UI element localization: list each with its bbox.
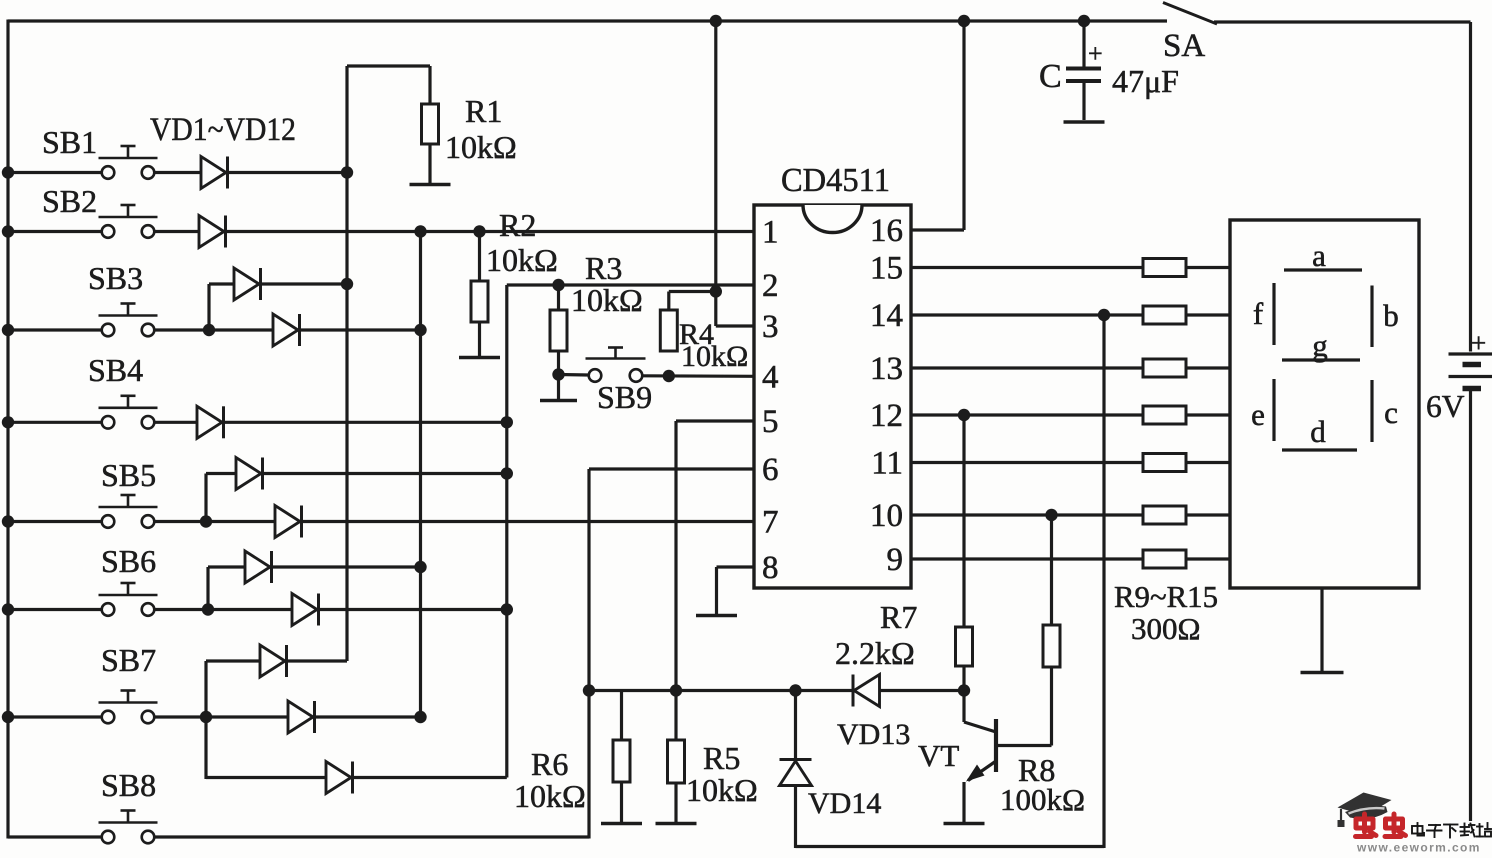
svg-text:+: + [1088, 39, 1103, 68]
svg-text:C: C [1039, 58, 1062, 95]
svg-text:VD14: VD14 [808, 787, 881, 820]
svg-text:13: 13 [870, 351, 903, 387]
svg-text:47μF: 47μF [1112, 63, 1179, 99]
svg-text:10kΩ: 10kΩ [681, 340, 748, 373]
svg-text:7: 7 [762, 505, 779, 541]
svg-text:SB3: SB3 [88, 260, 143, 296]
svg-text:12: 12 [870, 398, 903, 434]
svg-text:3: 3 [762, 309, 779, 345]
svg-text:10: 10 [870, 498, 903, 534]
svg-text:www.eeworm.com: www.eeworm.com [1356, 841, 1481, 854]
svg-text:+: + [1471, 328, 1486, 358]
svg-text:4: 4 [762, 359, 779, 395]
svg-text:R3: R3 [585, 250, 622, 286]
svg-text:10kΩ: 10kΩ [514, 778, 586, 814]
svg-text:R6: R6 [531, 746, 568, 782]
svg-text:e: e [1251, 397, 1265, 432]
svg-text:c: c [1384, 395, 1398, 430]
svg-text:10kΩ: 10kΩ [445, 129, 517, 165]
svg-text:10kΩ: 10kΩ [571, 282, 643, 318]
svg-text:2.2kΩ: 2.2kΩ [835, 635, 915, 671]
svg-text:11: 11 [871, 446, 903, 482]
svg-text:SB4: SB4 [88, 352, 143, 388]
svg-text:8: 8 [762, 550, 779, 586]
svg-text:16: 16 [870, 213, 903, 249]
svg-text:5: 5 [762, 404, 779, 440]
svg-text:R9~R15: R9~R15 [1114, 579, 1218, 614]
svg-text:SA: SA [1163, 28, 1205, 64]
svg-text:a: a [1312, 238, 1326, 273]
svg-text:d: d [1310, 414, 1326, 449]
svg-text:6: 6 [762, 452, 779, 488]
svg-text:CD4511: CD4511 [781, 162, 890, 199]
svg-text:SB2: SB2 [42, 183, 97, 219]
svg-text:SB1: SB1 [42, 124, 97, 160]
svg-text:15: 15 [870, 251, 903, 287]
svg-text:R1: R1 [465, 93, 502, 129]
svg-text:10kΩ: 10kΩ [486, 242, 558, 278]
svg-text:300Ω: 300Ω [1131, 611, 1201, 646]
svg-text:9: 9 [887, 542, 904, 578]
svg-text:VT: VT [918, 738, 959, 773]
svg-text:100kΩ: 100kΩ [1000, 782, 1085, 817]
svg-text:VD1~VD12: VD1~VD12 [150, 112, 296, 148]
svg-text:14: 14 [870, 298, 903, 334]
svg-text:VD13: VD13 [837, 718, 910, 751]
svg-text:6V: 6V [1426, 389, 1465, 424]
svg-text:g: g [1312, 328, 1328, 363]
svg-text:SB8: SB8 [101, 767, 156, 803]
svg-text:SB5: SB5 [101, 457, 156, 493]
svg-text:SB9: SB9 [597, 379, 652, 415]
svg-text:b: b [1383, 298, 1399, 333]
svg-text:SB6: SB6 [101, 543, 156, 579]
svg-text:2: 2 [762, 268, 779, 304]
svg-text:SB7: SB7 [101, 642, 156, 678]
svg-text:R5: R5 [703, 740, 740, 776]
svg-text:f: f [1253, 296, 1264, 331]
svg-text:R7: R7 [880, 599, 917, 635]
svg-text:10kΩ: 10kΩ [686, 772, 758, 808]
svg-text:1: 1 [762, 215, 779, 251]
svg-text:R2: R2 [499, 207, 536, 243]
